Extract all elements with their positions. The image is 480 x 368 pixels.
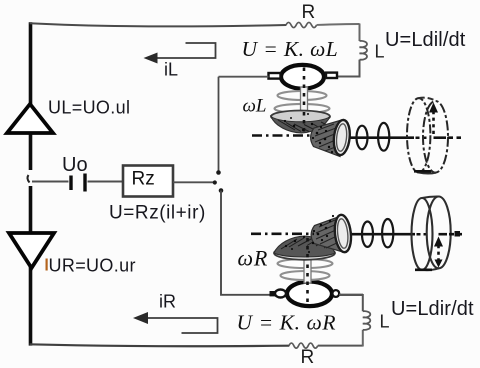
svg-text:U = K. ωR: U = K. ωR — [237, 311, 337, 335]
junction dot upper — [216, 170, 221, 175]
wire: top motor to center rail — [219, 76, 269, 78]
spring coil top 2 — [275, 104, 330, 113]
wire: bottom right horizontal — [318, 345, 363, 347]
terminal left (top motor) — [269, 73, 281, 79]
motor UR ellipse — [287, 282, 332, 307]
wheel arrow dotted (top) — [432, 110, 435, 134]
spring coil bottom 2 — [281, 271, 330, 280]
wheel right ellipse (bottom) — [427, 197, 451, 269]
motor UL ellipse — [281, 65, 324, 89]
wheel arrow dotted (bottom) — [437, 245, 440, 260]
disc hatch lines (bottom) — [281, 238, 330, 249]
svg-text:iR: iR — [159, 292, 176, 312]
shaft (bottom) — [352, 233, 415, 236]
wire: Rz to junction — [173, 181, 214, 183]
svg-text:Rz: Rz — [132, 169, 155, 190]
wheel hub line (bottom) — [439, 233, 448, 236]
motor shaft rod over disc (bottom) — [306, 238, 309, 258]
spring coil bottom 1 — [278, 259, 333, 268]
wheel hub line (top) — [434, 136, 447, 139]
motor shaft dashed rod (bottom) — [306, 239, 309, 302]
gear disc topside (bottom) — [274, 236, 335, 257]
wheel right ellipse (top) — [423, 101, 448, 173]
arrowhead iL — [144, 53, 158, 64]
resistor R (bottom) — [289, 343, 318, 348]
wheel hub dashes (bottom) — [449, 233, 462, 236]
motor shaft rod over disc (top) — [303, 112, 306, 132]
wheel hub dashes (top) — [448, 136, 461, 139]
svg-text:Uo: Uo — [62, 154, 88, 176]
stipple dots (top gear) — [284, 113, 333, 153]
svg-text:U=Rz(il+ir): U=Rz(il+ir) — [109, 203, 206, 224]
bevel cone (top) — [311, 121, 340, 157]
wheel arrowhead up (bottom) — [434, 237, 443, 247]
svg-text:iL: iL — [164, 60, 178, 80]
svg-text:U = K. ωL: U = K. ωL — [242, 37, 339, 61]
wire: center rail lower — [221, 191, 270, 295]
shaft (top) — [350, 136, 414, 139]
terminal right (top motor) — [326, 73, 337, 78]
junction dot lower — [219, 188, 224, 193]
motor rod cylinder (bottom) — [304, 238, 311, 283]
arrowhead iR — [133, 312, 148, 324]
amplifier UR triangle — [9, 233, 54, 268]
wire: center rail upper — [218, 77, 220, 171]
wire: top right horizontal — [317, 23, 360, 26]
orange tick — [46, 259, 48, 271]
wheel end tick (bottom) — [455, 231, 461, 237]
wire: bottom-right vertical — [362, 330, 364, 347]
resistor Rz box — [123, 166, 173, 197]
wheel left ellipse (top) — [407, 98, 430, 172]
wheel bottom connector (bottom) — [422, 268, 439, 270]
wheel bottom connector (top) — [419, 173, 436, 174]
wheel top connector (top) — [419, 98, 436, 101]
svg-text:UL=UO.ul: UL=UO.ul — [48, 98, 130, 118]
coupling ellipse 2 (top) — [378, 123, 389, 151]
capacitor wire right — [88, 181, 124, 183]
svg-text:UR=UO.ur: UR=UO.ur — [49, 256, 136, 276]
capacitor wire left — [32, 181, 69, 183]
svg-text:U=Ldir/dt: U=Ldir/dt — [391, 298, 474, 320]
inductor L (top) — [360, 41, 367, 60]
svg-text:ωL: ωL — [243, 96, 267, 117]
svg-text:U=Ldil/dt: U=Ldil/dt — [385, 29, 466, 51]
terminal left (bottom motor) — [275, 290, 286, 298]
junction dot mid — [213, 180, 217, 184]
coupling ellipse 2 (bottom) — [382, 219, 393, 247]
wheel arrowhead (top) — [429, 103, 438, 113]
cone face (top) — [332, 119, 351, 156]
axis dash-dot (top) — [252, 134, 311, 137]
svg-text:L: L — [380, 312, 390, 332]
svg-text:R: R — [301, 347, 315, 368]
wire: top horizontal — [30, 23, 287, 26]
spring coil top 1 — [278, 91, 327, 100]
terminal right (bottom motor) — [332, 290, 339, 297]
coupling ellipse 1 (top) — [357, 126, 368, 150]
wire: bottom motor to inductor — [339, 294, 363, 296]
cone face inner ring (bottom) — [336, 218, 349, 248]
terminal nub (bottom motor) — [270, 291, 276, 296]
coupling ellipse 1 (bottom) — [362, 222, 373, 247]
svg-text:L: L — [375, 42, 385, 62]
wire: bottom horizontal — [30, 344, 290, 346]
ground tick below wheel (top) — [414, 170, 431, 173]
wheel top connector (bottom) — [422, 196, 439, 198]
gear disc rim (top) — [271, 111, 330, 123]
motor shaft dashed rod (top) — [303, 68, 306, 132]
cone hatch lines (top) — [315, 124, 338, 151]
axis dash-dot (bottom) — [251, 233, 314, 236]
wire: left rail upper segment — [29, 22, 33, 170]
cone face inner ring (top) — [335, 123, 348, 151]
svg-text:ωR: ωR — [238, 246, 269, 271]
arrow iL — [156, 43, 216, 58]
stipple dots (bottom gear) — [285, 215, 334, 253]
amplifier UL triangle — [7, 104, 53, 133]
resistor R (top) — [286, 22, 317, 27]
disc hatch lines (top) — [278, 120, 327, 132]
arrow iR — [147, 318, 218, 333]
cone face (bottom) — [333, 214, 353, 253]
cone hatch lines (bottom) — [316, 220, 339, 248]
wheel left ellipse (bottom) — [412, 198, 433, 270]
ground tick below wheel (bottom) — [415, 268, 432, 271]
motor rod cylinder (top) — [301, 87, 308, 132]
bevel cone (bottom) — [311, 216, 341, 252]
wire: inductor to motor (bottom right) — [339, 295, 363, 311]
wheel arrowhead down (bottom) — [435, 260, 443, 268]
inductor L (bottom) — [363, 311, 370, 330]
wire: inductor to motor (top right) — [337, 60, 360, 77]
gear disc underside (top) — [271, 117, 330, 134]
wire: left rail lower segment — [29, 186, 33, 346]
capacitor Uo plates — [71, 174, 85, 192]
node tick — [27, 175, 29, 183]
wire: top-right vertical — [359, 24, 361, 42]
gear disc rim (bottom) — [274, 246, 335, 260]
svg-text:R: R — [302, 2, 316, 23]
